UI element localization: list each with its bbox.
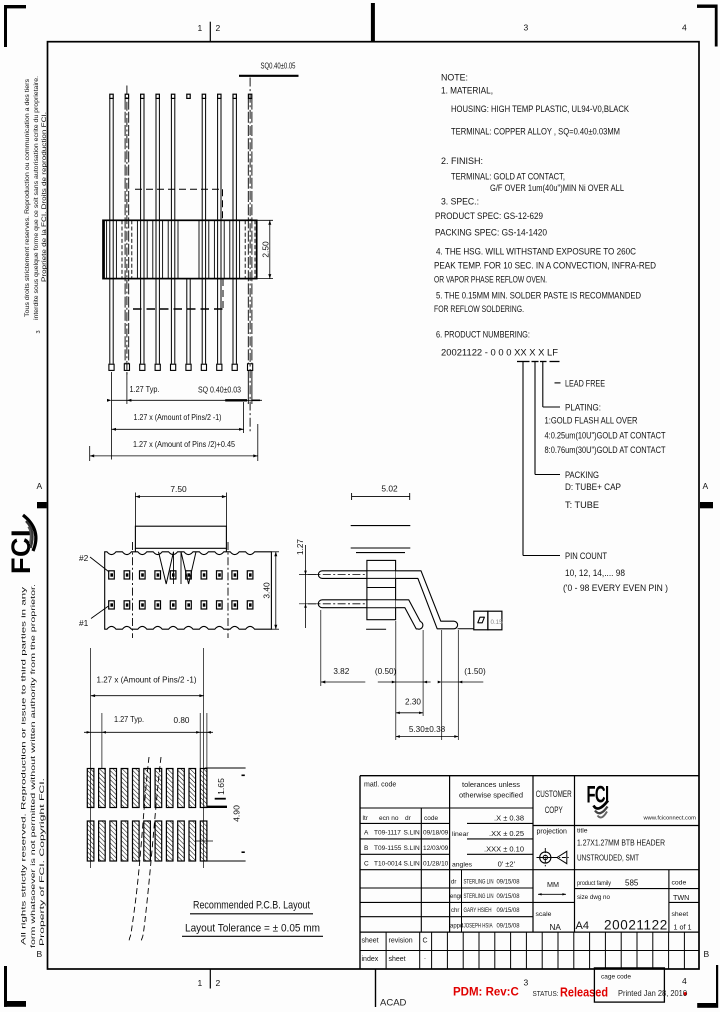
svg-text:title: title [577,828,588,835]
pcb pad row1 col10 [189,769,196,808]
svg-text:#1: #1 [79,618,89,628]
svg-text:5. THE 0.15MM MIN. SOLDER PAST: 5. THE 0.15MM MIN. SOLDER PASTE IS RECOM… [436,291,641,301]
callout plating [543,362,666,455]
pcb pad row1 col5 [133,769,140,808]
svg-text:dr: dr [451,880,456,886]
underline XX [517,361,530,363]
pcb pad row1 col6 [144,769,151,808]
break centerline left [132,542,134,638]
svg-text:D: TUBE+ CAP: D: TUBE+ CAP [565,482,621,492]
contact pad row1 pos1 [109,601,115,609]
svg-text:3: 3 [524,978,529,988]
contact pad row2 pos7 [201,571,207,579]
underline X2 [540,361,547,363]
svg-text:.: . [424,954,426,961]
copyright notice english (rotated) [21,584,47,948]
svg-text:NOTE:: NOTE: [441,73,468,83]
svg-text:4: 4 [682,23,687,33]
FCI logo sidebar (rotated) [6,529,36,574]
housing body profile [367,560,396,619]
svg-text:code: code [672,880,687,887]
svg-text:All rights strictly reserved.: All rights strictly reserved. Reproducti… [21,586,28,945]
leader dashes to pcb note [129,757,149,941]
dimension 5.02 [352,484,410,501]
svg-text:matl. code: matl. code [364,782,396,789]
break centerline right [227,542,229,638]
svg-text:2.30: 2.30 [405,698,421,707]
slot break V lines [159,552,197,584]
pin P2 [124,86,129,376]
zone labels bottom edge [198,969,688,1007]
svg-text:PRODUCT SPEC: GS-12-629: PRODUCT SPEC: GS-12-629 [435,211,543,221]
contact pad row1 pos6 [186,601,192,609]
pcb pad row1 col3 [110,769,117,808]
pin P4 [155,94,160,370]
dimension SQ 0.40±0.03 pin width [198,386,260,401]
svg-text:09/15/08: 09/15/08 [497,923,521,929]
SMT leg front [396,600,423,629]
svg-text:1: 1 [198,23,203,33]
svg-text:T09-1155: T09-1155 [374,845,402,852]
contact pad row2 pos4 [155,571,161,579]
svg-text:1.27 x (Amount of Pins /2)+0.4: 1.27 x (Amount of Pins /2)+0.45 [133,440,235,449]
break line upper [135,188,223,190]
pcb pad row2 col4 [121,821,128,861]
svg-text:2: 2 [216,23,221,33]
svg-text:Printed Jan 28, 2010: Printed Jan 28, 2010 [618,988,687,998]
svg-text:TWN: TWN [673,893,689,902]
svg-text:OR VAPOR PHASE REFLOW OVEN.: OR VAPOR PHASE REFLOW OVEN. [434,275,547,285]
svg-text:STATUS:: STATUS: [533,989,559,998]
svg-text:sheet: sheet [389,956,406,963]
contact pad row2 pos2 [124,571,130,579]
svg-text:S.LIN: S.LIN [404,830,421,837]
pin P3 [140,94,145,370]
svg-text:1. MATERIAL,: 1. MATERIAL, [441,86,493,96]
pcb pad row2 col2 [99,821,106,861]
svg-text:5.02: 5.02 [381,484,398,494]
svg-text:COPY: COPY [545,805,563,815]
svg-text:B: B [37,949,43,959]
svg-text:NA: NA [550,923,562,932]
svg-text:09/15/08: 09/15/08 [497,880,521,886]
title block outline [360,775,699,777]
dimension 1.27 x (pins/2 -1) [112,402,244,433]
trim mark top-right [697,5,718,47]
callout packing [535,362,621,510]
svg-text:STERLING LIN: STERLING LIN [464,894,494,900]
svg-text:product family: product family [577,880,611,887]
svg-text:interdite sous quelque forme q: interdite sous quelque forme que ce soit… [33,76,40,320]
contact pad row1 pos7 [201,601,207,609]
svg-text:HOUSING: HIGH TEMP PLASTIC, UL: HOUSING: HIGH TEMP PLASTIC, UL94-V0,BLAC… [451,104,629,114]
svg-text:code: code [424,815,438,822]
svg-text:appd: appd [450,923,463,929]
svg-text:09/18/09: 09/18/09 [423,830,449,837]
coplanarity datum line [458,628,474,630]
svg-text:Released: Released [560,986,608,1000]
contact pad row2 pos8 [217,571,223,579]
svg-text:Propriete de la FCI. Droits: Propriete de la FCI. Droits de reproduct… [41,112,48,282]
pcb pad row1 col9 [178,769,185,808]
svg-text:1 of 1: 1 of 1 [674,923,692,932]
svg-text:1.27 x (Amount of Pins/2 -1): 1.27 x (Amount of Pins/2 -1) [134,413,222,422]
svg-text:tolerances unless: tolerances unless [462,782,521,789]
svg-text:8:0.76um(30U")GOLD AT CONTACT: 8:0.76um(30U")GOLD AT CONTACT [545,445,666,455]
callout pin count [523,362,668,593]
contact pad row1 pos10 [247,601,253,609]
view: header front elevation [90,61,299,462]
svg-text:engr: engr [450,894,462,900]
svg-text:FOR REFLOW SOLDERING.: FOR REFLOW SOLDERING. [434,304,524,314]
svg-text:B: B [364,845,368,852]
pin P8 [217,94,222,370]
dimension (0.50) [375,630,431,716]
contact pad row1 pos2 [124,601,130,609]
svg-text:('0 - 98 EVERY EVEN PIN ): ('0 - 98 EVERY EVEN PIN ) [563,583,668,593]
svg-text:Recommended P.C.B. Layout: Recommended P.C.B. Layout [193,900,310,912]
pin post upper [308,571,367,579]
svg-text:12/03/09: 12/03/09 [423,845,449,852]
pin P7 [201,94,206,370]
pcb pad row1 col1 [87,769,94,808]
dimension 0.80 pad width [174,648,211,868]
svg-text:10, 12, 14,.... 98: 10, 12, 14,.... 98 [565,568,625,578]
svg-text:6. PRODUCT NUMBERING:: 6. PRODUCT NUMBERING: [436,330,530,340]
svg-text:SQ 0.40±0.03: SQ 0.40±0.03 [198,386,241,395]
cage code box [594,968,664,1002]
svg-text:7.50: 7.50 [170,484,187,494]
svg-text:JOSEPH HSIA: JOSEPH HSIA [464,923,493,929]
svg-text:.X ± 0.38: .X ± 0.38 [494,814,524,823]
svg-text:www.fciconnect.com: www.fciconnect.com [642,816,696,822]
contact pad row2 pos9 [232,571,238,579]
zone label A left edge [37,481,47,508]
contact pad row2 pos10 [247,571,253,579]
housing top profile lines [351,525,411,527]
dimension 1.65 pad length [205,768,246,807]
svg-text:ACAD: ACAD [380,998,407,1009]
svg-text:A: A [364,830,369,837]
dimension 4.90 row span [205,775,246,861]
trim mark bottom-right [697,965,718,1008]
dimension 5.30±0.38 [396,725,459,738]
pcb pad row2 col1 [87,821,94,861]
pcb pad row1 col2 [99,769,106,808]
svg-text:A: A [37,481,43,491]
svg-text:sheet: sheet [672,911,689,918]
contact pad row2 pos6 [186,571,192,579]
svg-text:PDM: Rev:C: PDM: Rev:C [453,987,519,999]
dimension 1.27 x (pins/2 -1) pcb [91,648,204,868]
svg-text:revision: revision [389,938,413,945]
svg-text:20021122: 20021122 [604,918,668,933]
svg-text:3.82: 3.82 [333,667,349,676]
callout lead free [555,379,606,389]
svg-text:chr: chr [451,908,459,914]
svg-text:dr: dr [405,815,412,822]
contact pad row1 pos8 [217,601,223,609]
notes block [434,73,656,340]
svg-text:4: 4 [682,976,687,986]
svg-text:S.LIN: S.LIN [404,860,421,867]
svg-text:PIN COUNT: PIN COUNT [565,551,607,561]
zone label A right edge [700,481,713,508]
svg-text:1.27 x (Amount of Pins/2 -1): 1.27 x (Amount of Pins/2 -1) [97,676,197,685]
pcb pad row1 col11 [200,769,207,808]
svg-text:(0.50): (0.50) [375,667,397,676]
dimension 1.27 Typ pin pitch [107,372,262,460]
svg-text:C: C [364,860,369,867]
pcb pad row2 col3 [110,821,117,861]
dimension 1.27 x (pins/2)+0.45 [90,424,258,461]
pcb pad row2 col10 [189,821,196,861]
pcb pad row2 col8 [166,821,173,861]
svg-text:cage code: cage code [601,974,631,981]
pcb pad row2 col7 [155,821,162,861]
pcb pad row2 col11 [200,821,207,861]
svg-text:projection: projection [537,829,567,836]
FCI logo title block [587,782,609,818]
svg-text:TERMINAL: COPPER ALLOY , SQ=0.: TERMINAL: COPPER ALLOY , SQ=0.40±0.03MM [451,127,620,137]
svg-text:PACKING: PACKING [565,470,599,480]
svg-text:LEAD FREE: LEAD FREE [565,379,605,389]
svg-text:C: C [423,938,428,945]
svg-text:3: 3 [36,330,42,333]
svg-text:2.50: 2.50 [261,241,271,258]
svg-text:PEAK TEMP. FOR 10 SEC. IN A CO: PEAK TEMP. FOR 10 SEC. IN A CONVECTION, … [434,261,656,271]
svg-text:T: TUBE: T: TUBE [565,500,599,510]
svg-text:1: 1 [198,978,203,988]
svg-text:1.65: 1.65 [216,778,226,795]
mating face rectangle [135,526,226,548]
dimension (1.50) [438,630,486,740]
svg-text:size dwg no: size dwg no [577,894,610,901]
dimension 3.40 [262,552,280,629]
dimension 7.50 [135,484,226,526]
pin P1 [109,94,114,370]
pin P9 [232,94,237,370]
svg-text:Property of FCI. Copyright: Property of FCI. Copyright FCI. [39,778,46,946]
pin P10 [248,78,253,434]
svg-text:SQ0.40±0.05: SQ0.40±0.05 [261,61,296,71]
svg-text:PACKING SPEC: GS-14-1420: PACKING SPEC: GS-14-1420 [435,228,547,238]
trim mark top-left [4,5,26,47]
svg-text:index: index [362,956,379,963]
svg-text:STERLING LIN: STERLING LIN [464,880,494,886]
svg-text:T09-1117: T09-1117 [374,830,401,837]
svg-text:A4: A4 [576,920,589,932]
svg-text:.XX ± 0.25: .XX ± 0.25 [489,829,524,838]
svg-text:4:0.25um(10U")GOLD AT CONTACT: 4:0.25um(10U")GOLD AT CONTACT [545,431,666,441]
pcb pad row2 col5 [133,821,140,861]
pcb pad row1 col4 [121,769,128,808]
svg-text:4.90: 4.90 [232,805,242,822]
svg-text:UNSTROUDED, SMT: UNSTROUDED, SMT [577,853,640,863]
dimension 1.27 Typ pcb [84,713,213,768]
SMT leg rear [396,571,458,629]
contact pad row1 pos5 [170,601,176,609]
svg-text:2: 2 [216,978,221,988]
pcb pad row2 col9 [178,821,185,861]
svg-text:2. FINISH:: 2. FINISH: [441,156,483,166]
svg-text:3. SPEC.:: 3. SPEC.: [441,197,479,207]
svg-text:1.27: 1.27 [296,539,305,555]
title block [360,776,699,969]
contact pad row2 pos1 [109,571,115,579]
svg-text:A: A [703,481,709,491]
svg-text:linear: linear [452,831,469,838]
svg-text:GARY HSIEH: GARY HSIEH [464,908,492,914]
contact pad row2 pos5 [170,571,176,579]
svg-text:1:GOLD FLASH ALL OVER: 1:GOLD FLASH ALL OVER [545,416,638,426]
svg-text:1.27 Typ.: 1.27 Typ. [114,715,144,724]
sheet index cell dividers [386,932,684,969]
svg-text:ltr: ltr [363,815,369,822]
svg-text:1.27X1.27MM BTB HEADER: 1.27X1.27MM BTB HEADER [577,838,665,848]
view: header top view [79,484,279,638]
dimension 2.50 housing height [257,220,273,278]
housing body [103,220,257,278]
copyright notice french (rotated) [24,76,48,334]
svg-text:scale: scale [536,911,552,918]
underline X1 [532,361,539,363]
break line lower [133,308,223,310]
svg-text:(1.50): (1.50) [464,667,486,676]
svg-text:ecn no: ecn no [379,815,399,822]
pcb pad row1 col7 [155,769,162,808]
svg-text:01/28/10: 01/28/10 [423,860,449,867]
svg-text:CUSTOMER: CUSTOMER [536,789,572,799]
contact pad row2 pos3 [140,571,146,579]
svg-text:.XXX ± 0.10: .XXX ± 0.10 [484,845,524,854]
contact pad row1 pos9 [232,601,238,609]
svg-text:PLATING:: PLATING: [565,403,601,413]
svg-text:MM: MM [547,880,559,889]
trim mark bottom-left [4,966,26,1007]
pin post lower [308,600,367,608]
dimension 2.30 [396,698,423,715]
svg-text:B: B [704,949,710,959]
svg-text:3: 3 [524,23,529,33]
svg-text:otherwise specified: otherwise specified [459,793,523,800]
pin P5 [171,94,176,370]
svg-text:TERMINAL: GOLD AT CONTACT,: TERMINAL: GOLD AT CONTACT, [451,172,565,182]
svg-text:4. THE HSG. WILL WITHSTAND EXP: 4. THE HSG. WILL WITHSTAND EXPOSURE TO 2… [436,247,636,257]
contact pad row1 pos4 [155,601,161,609]
view: header side view SMT [296,484,503,741]
svg-text:0.15: 0.15 [491,619,504,626]
svg-text:0.80: 0.80 [174,716,190,725]
flatness symbol box [474,611,503,630]
zone label B left edge [37,949,43,959]
svg-text:angles: angles [452,861,473,868]
svg-text:1.27 Typ.: 1.27 Typ. [130,385,160,394]
svg-text:09/15/08: 09/15/08 [497,908,521,914]
svg-text:Layout Tolerance = ± 0.05 mm: Layout Tolerance = ± 0.05 mm [185,923,320,935]
dimension 3.82 [321,610,396,740]
svg-text:G/F OVER 1um(40u")MIN Ni OVER: G/F OVER 1um(40u")MIN Ni OVER ALL [490,183,624,193]
zone labels top edge [198,3,688,42]
row lines left tables [360,807,533,809]
svg-text:09/15/08: 09/15/08 [497,894,521,900]
svg-text:S.LIN: S.LIN [404,845,421,852]
svg-text:585: 585 [625,879,639,888]
pin P6 [186,94,191,370]
svg-text:T10-0014: T10-0014 [374,860,402,867]
svg-text:form whatsoever is not permitt: form whatsoever is not permitted without… [30,584,37,948]
svg-text:3.40: 3.40 [262,582,272,599]
approvals [461,870,463,932]
svg-text:0' ±2': 0' ±2' [498,859,516,868]
pcb pad row1 col8 [166,769,173,808]
contact pad row1 pos3 [140,601,146,609]
underline LF [550,361,560,363]
svg-text:5.30±0.38: 5.30±0.38 [409,725,446,734]
column dividers [449,776,451,932]
dimension 1.27 pin pitch side [296,539,318,628]
svg-text:Tous droits strictement reserv: Tous droits strictement reserves. Reprod… [24,79,31,317]
svg-text:sheet: sheet [362,938,379,945]
zone label B right edge [704,949,710,959]
pcb pad row2 col6 [144,821,151,861]
view: recommended PCB layout [84,648,323,942]
housing outline scalloped [105,552,272,629]
svg-text:20021122 - 0 0 0 XX X X LF: 20021122 - 0 0 0 XX X X LF [441,348,558,358]
svg-text:#2: #2 [79,553,89,563]
projection symbol [537,848,570,867]
